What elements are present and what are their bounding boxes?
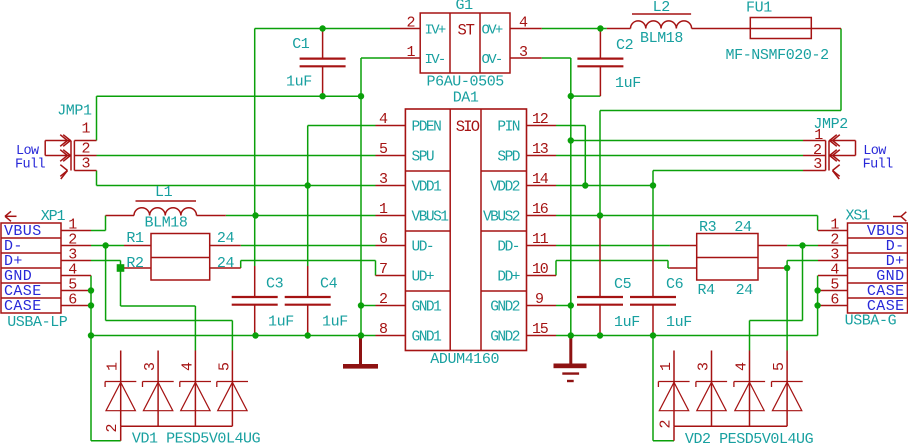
svg-text:1uF: 1uF	[615, 75, 641, 92]
resistor R1 right pin	[210, 245, 241, 247]
svg-text:UD-: UD-	[412, 239, 434, 255]
G1 pin 3 OV-	[510, 57, 542, 59]
resistor R2 right pin	[210, 267, 241, 269]
junction	[319, 25, 325, 31]
wire D- run to VD1 pin5	[106, 320, 233, 322]
svg-text:VBUS1: VBUS1	[412, 209, 449, 225]
JMP1 pin 2	[74, 155, 96, 157]
VD2 diode 3	[696, 381, 727, 383]
svg-text:1: 1	[82, 121, 91, 138]
capacitor C3 bottom lead	[254, 305, 256, 336]
resistor R3 left pin	[670, 245, 697, 247]
svg-text:C4: C4	[320, 276, 338, 293]
svg-text:4: 4	[179, 362, 196, 371]
wire PIN to VDD2 drop	[584, 126, 586, 186]
wire DD- to R3 in	[556, 245, 670, 247]
svg-text:6: 6	[379, 231, 388, 248]
svg-text:PDEN: PDEN	[412, 119, 442, 135]
junction	[358, 93, 364, 99]
svg-text:3: 3	[519, 44, 528, 61]
junction	[358, 302, 364, 308]
DA1 pin 16 VBUS2	[527, 215, 556, 217]
svg-text:IV-: IV-	[425, 52, 445, 68]
JMP2 pin 3	[803, 170, 826, 172]
svg-text:24: 24	[217, 230, 235, 247]
L2 right pin to fuse	[692, 28, 751, 30]
wire VDD2 to JMP2 pin3	[653, 170, 803, 172]
VD1 diode 5 pin	[231, 351, 233, 427]
svg-text:1uF: 1uF	[666, 314, 692, 331]
VD1 pin 2	[120, 426, 122, 441]
wire D+ to R2 in	[121, 267, 125, 269]
svg-text:C2: C2	[616, 37, 633, 54]
wire GND2 to JMP2 pin1	[571, 140, 803, 142]
wire to VD2 pin2	[653, 440, 674, 442]
DA1 pin 13 SPD	[527, 155, 556, 157]
VD2 diode 4 pin	[749, 351, 751, 427]
capacitor C1 top lead	[322, 29, 324, 59]
wire VDD2 line	[556, 185, 653, 187]
wire PDEN/VDD1 vertical to C4	[307, 126, 309, 267]
svg-text:2: 2	[104, 424, 121, 433]
junction	[597, 332, 603, 338]
wire PIN pin12 stub	[556, 125, 585, 127]
VD1 diode 4	[180, 381, 211, 383]
svg-text:VDD1: VDD1	[412, 179, 442, 195]
capacitor C5 top lead	[599, 216, 601, 298]
DA1 pin 5 SPU	[376, 155, 406, 157]
svg-text:GND2: GND2	[490, 329, 520, 345]
svg-text:XS1: XS1	[846, 208, 871, 225]
capacitor C6 plates	[630, 296, 676, 298]
wire DD+ run	[556, 260, 668, 262]
svg-text:1uF: 1uF	[614, 314, 640, 331]
VD2 pin 2	[673, 426, 675, 441]
svg-text:2: 2	[658, 420, 675, 429]
wire R2 out to UD+ run	[241, 260, 376, 262]
capacitor C2 top lead	[599, 29, 601, 59]
svg-text:UD+: UD+	[412, 269, 434, 285]
svg-text:3: 3	[379, 171, 388, 188]
svg-text:GND1: GND1	[412, 299, 442, 315]
wire R4 out riser	[786, 261, 788, 269]
svg-text:4: 4	[379, 111, 388, 128]
wire VDD1 line to DA1 pin3	[97, 185, 376, 187]
resistor R3 right pin	[758, 245, 787, 247]
L1 right pin	[197, 215, 226, 217]
wire XS1 GND/CASE chain down	[817, 276, 819, 336]
svg-text:1uF: 1uF	[322, 314, 348, 331]
svg-text:5: 5	[771, 362, 788, 371]
svg-text:6: 6	[68, 292, 77, 309]
VD1 diode 3	[143, 381, 174, 383]
svg-text:R4: R4	[698, 282, 716, 299]
svg-text:C3: C3	[266, 276, 284, 293]
svg-text:USBA-LP: USBA-LP	[7, 314, 68, 331]
wire R3 out to XS1 pin2	[787, 245, 818, 247]
DA1 pin 15 GND2	[527, 335, 556, 337]
svg-text:OV-: OV-	[482, 52, 502, 68]
wire R2 out jog	[240, 261, 242, 269]
XS1 pin 5	[818, 290, 848, 292]
capacitor C6 bottom lead	[652, 305, 654, 336]
wire D- drop to VD1 pin5	[231, 321, 233, 351]
VD1 diode 3 pin	[157, 351, 159, 427]
XP1 pin 6	[61, 305, 91, 307]
junction	[358, 332, 364, 338]
junction	[252, 212, 258, 218]
svg-text:1: 1	[105, 362, 122, 371]
VD2 diode 5	[772, 381, 803, 383]
wire VBUS-in vertical drop to C3	[254, 29, 256, 267]
svg-text:DD+: DD+	[497, 269, 519, 285]
junction	[568, 302, 574, 308]
svg-text:9: 9	[535, 291, 543, 308]
capacitor C6 top lead	[652, 230, 654, 297]
VD2 diode 1	[658, 381, 689, 383]
wire C6 top lead	[652, 186, 654, 231]
junction	[319, 93, 325, 99]
wire D+ jog down	[120, 261, 122, 269]
resistor R1 left pin	[124, 245, 151, 247]
junction	[650, 182, 656, 188]
svg-text:1: 1	[379, 201, 388, 218]
dc-dc converter G1 body	[420, 13, 510, 73]
svg-text:USBA-G: USBA-G	[845, 313, 897, 330]
DA1 pin 10 DD+	[527, 275, 556, 277]
resistor R4 right pin	[758, 267, 787, 269]
capacitor C4 bottom lead	[307, 305, 309, 336]
wire XP1 pin1 to L1	[91, 230, 106, 232]
svg-text:16: 16	[532, 201, 549, 218]
svg-text:L1: L1	[155, 184, 173, 201]
svg-text:15: 15	[532, 321, 549, 338]
wire G1 OV+ to L2	[542, 28, 607, 30]
capacitor C5 bottom lead	[599, 305, 601, 336]
svg-text:VD2 PESD5V0L4UG: VD2 PESD5V0L4UG	[685, 431, 814, 445]
wire JMP2 pin3 riser	[652, 171, 654, 186]
capacitor C1 plates	[300, 57, 346, 59]
capacitor C3 top lead	[254, 266, 256, 297]
L1 left pin	[106, 215, 135, 217]
ground GND2 earth symbol	[569, 336, 572, 364]
junction	[568, 332, 574, 338]
svg-text:VD1 PESD5V0L4UG: VD1 PESD5V0L4UG	[132, 431, 261, 445]
VD2 diode 3 pin	[711, 351, 713, 427]
svg-text:Full: Full	[15, 158, 46, 173]
svg-text:VDD2: VDD2	[490, 179, 520, 195]
resistor R2 left pin	[124, 267, 151, 269]
wire XP1 GND/CASE chain down	[90, 276, 92, 441]
wire DD+ jog down to R4	[667, 261, 669, 269]
VD1 diode 1	[105, 381, 136, 383]
svg-text:R1: R1	[126, 230, 144, 247]
wire JMP1 pin1 to ground riser	[96, 96, 98, 140]
wire D- drop	[105, 246, 107, 321]
capacitor C4 top lead	[307, 266, 309, 297]
svg-text:10: 10	[532, 261, 549, 278]
wire to VD1 pin2	[91, 440, 121, 442]
JMP2 pin 2	[803, 155, 826, 157]
wire GND2 rail right	[556, 335, 818, 337]
DA1 pin 11 DD-	[527, 245, 556, 247]
VD1 diode 5	[217, 381, 248, 383]
ferrite bead L1	[134, 208, 197, 216]
wire DD+ jog up	[555, 261, 557, 276]
svg-text:OV+: OV+	[482, 23, 503, 39]
resistor R3/R4 body	[697, 234, 758, 281]
capacitor C3 plates	[232, 296, 278, 298]
svg-text:JMP1: JMP1	[57, 103, 92, 120]
DA1 pin 9 GND2	[527, 305, 556, 307]
wire D+ drop to VD1 pin4	[194, 306, 196, 351]
wire JMP1 pin2 to SPU	[97, 155, 376, 157]
svg-text:12: 12	[532, 111, 548, 128]
VD2 diode 4	[734, 381, 765, 383]
wire G1 OV- down to GND2 rail	[570, 58, 572, 336]
svg-text:5: 5	[379, 141, 388, 158]
wire GND1 rail left	[91, 335, 376, 337]
wire D+ drop to VD2 pin5	[786, 268, 788, 351]
svg-text:11: 11	[532, 231, 549, 248]
wire GND2 pin9 stub	[556, 305, 571, 307]
DA1 pin 14 VDD2	[527, 185, 556, 187]
wire VD2 pin4 drop	[749, 321, 751, 351]
DA1 pin 1 VBUS1	[376, 215, 406, 217]
wire PDEN to DA1 pin4	[308, 125, 376, 127]
svg-text:MF-NSMF020-2: MF-NSMF020-2	[726, 47, 829, 64]
DA1 pin 8 GND1	[376, 335, 406, 337]
JMP1 pin3 chevron	[60, 165, 67, 171]
wire D+ run to VD1 pin4	[121, 305, 196, 307]
svg-text:6: 6	[830, 292, 839, 309]
DA1 pin 2 GND1	[376, 305, 406, 307]
wire XS1 pin1 drop	[817, 216, 819, 231]
svg-text:DD-: DD-	[497, 239, 519, 255]
DA1 pin 7 UD+	[376, 275, 406, 277]
wire VBUS-in top rail to G1 IV+	[255, 28, 390, 30]
DA1 pin 6 UD-	[376, 245, 406, 247]
VD2 diode 5 pin	[786, 351, 788, 427]
wire G1 IV- stub	[361, 57, 390, 59]
DA1 pin 3 VDD1	[376, 185, 406, 187]
DA1 pin 12 PIN	[527, 125, 556, 127]
junction	[252, 332, 258, 338]
wire C2 bottom to GND2	[571, 95, 601, 97]
XS1 direction arrow	[893, 216, 901, 218]
svg-text:24: 24	[734, 219, 752, 236]
svg-text:SIO: SIO	[456, 118, 480, 136]
connector XP1 body	[1, 223, 61, 313]
svg-text:8: 8	[379, 321, 388, 338]
capacitor C5 plates	[577, 296, 623, 298]
XS1 pin 4	[818, 275, 848, 277]
wire FU1 out drop	[840, 29, 842, 111]
svg-text:1uF: 1uF	[286, 74, 312, 91]
wire GND1 stub to pin2	[361, 305, 376, 307]
svg-text:1uF: 1uF	[268, 314, 294, 331]
svg-text:CASE: CASE	[4, 298, 42, 315]
svg-text:3: 3	[813, 156, 822, 173]
capacitor C2 plates	[577, 57, 623, 59]
wire G1 OV- horizontal	[542, 57, 571, 59]
svg-text:BLM18: BLM18	[640, 30, 683, 47]
svg-text:GND2: GND2	[490, 299, 520, 315]
svg-text:4: 4	[519, 15, 528, 32]
XP1 pin 5	[61, 290, 91, 292]
wire D- run to VD2 pin4	[750, 320, 803, 322]
junction	[88, 287, 94, 293]
junction	[597, 212, 603, 218]
svg-text:4: 4	[734, 362, 751, 371]
wire XP1 pin2 D- to R1	[91, 245, 124, 247]
svg-text:1: 1	[658, 362, 675, 371]
svg-text:SPU: SPU	[412, 149, 434, 165]
svg-text:ST: ST	[458, 22, 475, 40]
svg-text:GND1: GND1	[412, 329, 442, 345]
junction	[814, 287, 820, 293]
L2 left pin	[607, 28, 631, 30]
FU1 right pin	[811, 28, 841, 30]
svg-text:G1: G1	[456, 0, 474, 14]
XP1 pin 1	[61, 230, 91, 232]
G1 pin 2 IV+	[390, 28, 420, 30]
XP1 pin 4	[61, 275, 91, 277]
XP1 direction arrow	[5, 215, 17, 217]
wire D+ drop	[120, 268, 122, 306]
svg-text:IV+: IV+	[425, 23, 446, 39]
svg-text:P6AU-0505: P6AU-0505	[427, 74, 505, 91]
junction D+ jog	[117, 264, 125, 272]
wire VBUS-iso drop to VBUS2	[599, 111, 601, 216]
JMP2 pin 1	[803, 140, 826, 142]
svg-text:L2: L2	[653, 0, 670, 16]
wire upstream ground horizontal	[97, 95, 362, 97]
svg-text:BLM18: BLM18	[145, 215, 188, 232]
svg-text:2: 2	[379, 291, 388, 308]
svg-text:DA1: DA1	[453, 90, 479, 107]
wire SPD to JMP2 pin2	[556, 155, 803, 157]
svg-text:24: 24	[217, 255, 235, 272]
svg-text:3: 3	[142, 362, 159, 371]
VD2 common anode rail	[674, 425, 787, 427]
VD1 diode 1 pin	[120, 351, 122, 427]
JMP2 pin3 chevron	[833, 165, 840, 171]
svg-text:C5: C5	[614, 276, 632, 293]
wire D- drop right	[802, 246, 804, 321]
junction	[597, 25, 603, 31]
svg-text:7: 7	[379, 261, 388, 278]
svg-text:14: 14	[532, 171, 549, 188]
resistor R4 left pin	[670, 267, 697, 269]
capacitor C1 bottom lead	[322, 66, 324, 96]
svg-text:Full: Full	[863, 158, 894, 173]
junction	[650, 332, 656, 338]
XS1 pin 3	[818, 260, 848, 262]
jumper JMP1 body	[70, 141, 72, 171]
connector XS1 body	[848, 223, 908, 313]
wire R1 out to UD- pin6	[241, 245, 376, 247]
wire G1 IV- down to GND1 rail	[360, 58, 362, 336]
XP1 pin 2	[61, 245, 91, 247]
wire UD+ drop to pin7	[375, 261, 377, 276]
svg-text:ADUM4160: ADUM4160	[430, 351, 499, 368]
wire XP1 pin1 riser	[105, 216, 107, 231]
svg-text:24: 24	[736, 282, 754, 299]
ground GND1 power symbol	[359, 336, 362, 365]
svg-text:2: 2	[407, 15, 416, 32]
wire L1 to VBUS1 pin1	[226, 215, 376, 217]
svg-text:C1: C1	[292, 36, 310, 53]
wire D+ to XS1 pin3	[787, 260, 818, 262]
VD1 diode 4 pin	[194, 351, 196, 427]
wire VBUS2 to XS1 pin1	[556, 215, 818, 217]
junction	[305, 182, 311, 188]
XS1 pin 1	[818, 230, 848, 232]
svg-text:SPD: SPD	[497, 149, 519, 165]
svg-text:13: 13	[532, 141, 549, 158]
svg-text:PIN: PIN	[497, 119, 519, 135]
junction	[305, 332, 311, 338]
wire GND2 to VD2 pin2 drop	[652, 336, 654, 441]
junction	[88, 332, 94, 338]
wire to R4 in	[668, 267, 670, 269]
VD1 common anode rail	[121, 425, 233, 427]
fuse FU1 body	[750, 18, 811, 39]
junction	[568, 137, 574, 143]
JMP1 pin 3	[74, 170, 96, 172]
svg-text:3: 3	[696, 362, 713, 371]
junction	[102, 242, 108, 248]
svg-text:3: 3	[82, 156, 91, 173]
XS1 pin 6	[818, 305, 848, 307]
junction	[799, 242, 805, 248]
junction	[784, 265, 790, 271]
jumper JMP2 body	[825, 141, 827, 171]
wire VBUS-iso run	[600, 110, 841, 112]
svg-text:FU1: FU1	[746, 0, 772, 17]
G1 pin 1 IV-	[390, 57, 420, 59]
op-isolator DA1 body	[405, 109, 526, 351]
XS1 pin 2	[818, 245, 848, 247]
ferrite bead L2	[631, 21, 692, 29]
resistor R1/R2 body	[151, 234, 210, 281]
DA1 pin 4 PDEN	[376, 125, 406, 127]
junction	[814, 302, 820, 308]
svg-text:C6: C6	[666, 276, 684, 293]
junction	[88, 302, 94, 308]
svg-text:R2: R2	[126, 255, 143, 272]
junction	[568, 93, 574, 99]
VD2 diode 1 pin	[673, 351, 675, 427]
svg-text:XP1: XP1	[41, 208, 66, 225]
JMP1 pin 1	[74, 140, 96, 142]
capacitor C4 plates	[285, 296, 331, 298]
svg-text:R3: R3	[699, 219, 717, 236]
XP1 pin 3	[61, 260, 91, 262]
wire JMP1 pin3 drop	[96, 171, 98, 186]
capacitor C2 bottom lead	[599, 66, 601, 96]
junction	[582, 182, 588, 188]
svg-text:1: 1	[407, 44, 416, 61]
svg-text:5: 5	[216, 362, 233, 371]
svg-text:VBUS2: VBUS2	[483, 209, 520, 225]
wire XP1 pin3 D+ to jog	[91, 260, 121, 262]
G1 pin 4 OV+	[510, 28, 542, 30]
